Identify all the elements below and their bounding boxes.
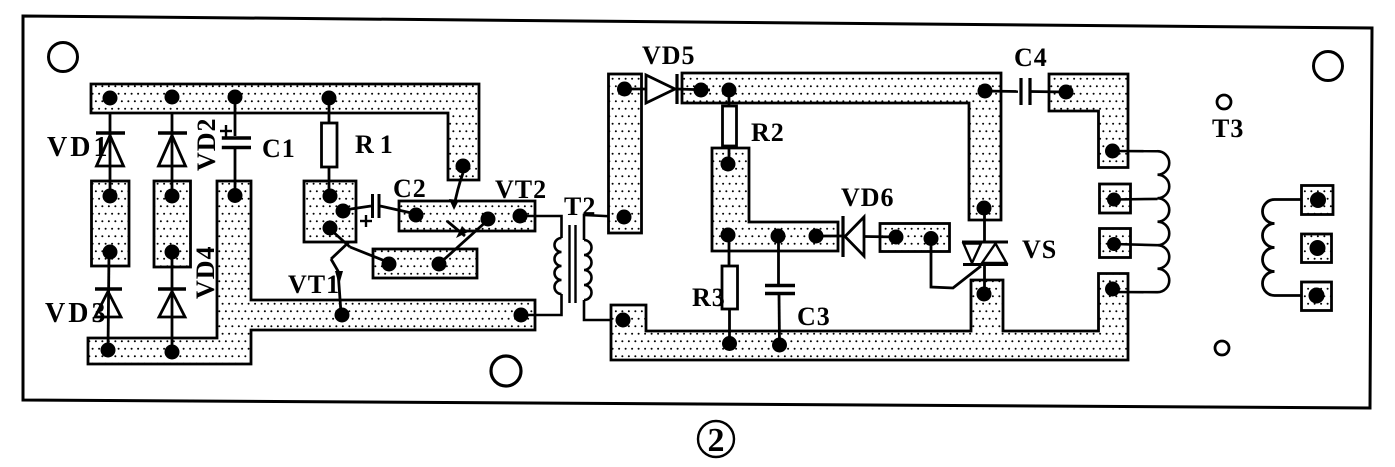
node pad C1 top xyxy=(228,90,243,105)
wire T3 pad 1 xyxy=(1302,186,1334,215)
wire T2 primary bottom lead xyxy=(521,294,562,315)
T2 secondary winding xyxy=(584,240,592,300)
node pad xyxy=(165,189,180,204)
wire C1 negative trace + bottom-left ground bus + middle bus xyxy=(88,181,535,364)
diode VD4 xyxy=(158,253,186,352)
resistor R2 xyxy=(723,90,737,164)
diode VD1 xyxy=(96,113,125,196)
pulse transformer output winding xyxy=(1113,151,1170,292)
node pad T2 primary top xyxy=(513,209,528,224)
node pad R2 top xyxy=(722,83,737,98)
transistor VT1 xyxy=(331,230,390,313)
wire T3 pad 2 xyxy=(1302,234,1332,263)
node pad xyxy=(1310,240,1326,256)
wire tap 2 lead xyxy=(1114,244,1158,245)
capacitor C3 xyxy=(765,236,795,345)
node pad T-out winding bottom xyxy=(1105,282,1120,297)
svg-text:VD2: VD2 xyxy=(192,117,221,171)
node pad T2 primary bottom xyxy=(514,308,529,323)
node pad VS cathode xyxy=(977,287,992,302)
node pad VD6 cathode xyxy=(889,230,904,245)
transformer T2 xyxy=(520,215,624,320)
transformer T3 winding xyxy=(1263,200,1302,296)
node pad xyxy=(103,189,118,204)
node pad VT2 emitter xyxy=(481,212,496,227)
transistor VT2 xyxy=(439,173,489,264)
thyristor VS xyxy=(931,208,1008,294)
node pad tap 2 xyxy=(1107,237,1121,251)
small hole near T3 top xyxy=(1217,95,1231,109)
svg-text:C1: C1 xyxy=(262,134,296,163)
node pad C3 bottom xyxy=(772,338,787,353)
svg-text:VD4: VD4 xyxy=(191,245,220,299)
wire T2 primary top lead xyxy=(520,216,562,238)
node pad C1 bottom xyxy=(228,188,243,203)
diode VD2 xyxy=(158,113,187,196)
wire T3 pad 3 xyxy=(1302,282,1332,311)
wire winding top lead xyxy=(1113,150,1158,153)
mounting hole top-right xyxy=(1314,52,1343,81)
node pad R2 bottom xyxy=(721,157,736,172)
node pad R1 bottom xyxy=(323,189,338,204)
wire winding tap pad lower xyxy=(1100,229,1131,258)
node pad R1 top xyxy=(322,91,337,106)
svg-text:C4: C4 xyxy=(1014,43,1048,72)
capacitor C4 xyxy=(985,78,1066,105)
wire T2 secondary top lead xyxy=(584,215,624,240)
node pad C2 left xyxy=(336,204,351,219)
T2 core xyxy=(568,225,570,303)
node pad VD2 top xyxy=(165,90,180,105)
svg-text:VD6: VD6 xyxy=(841,183,895,212)
node pad xyxy=(382,257,397,272)
node pad T2 sec top xyxy=(617,210,632,225)
diode VD6 xyxy=(816,216,896,257)
wire VT1 collector island xyxy=(373,249,477,278)
node pad xyxy=(1309,288,1325,304)
svg-text:VS: VS xyxy=(1022,235,1057,264)
small hole near T3 bottom xyxy=(1215,341,1229,355)
svg-text:VT2: VT2 xyxy=(495,175,547,204)
node pad C4 left xyxy=(978,84,993,99)
svg-text:R3: R3 xyxy=(692,283,726,312)
node pad VT1 base xyxy=(323,221,338,236)
node pad winding top xyxy=(1105,144,1120,159)
svg-text:C3: C3 xyxy=(797,302,831,331)
svg-text:VD5: VD5 xyxy=(642,41,696,70)
figure number 2 xyxy=(698,421,734,459)
node pad VD5 cathode xyxy=(694,83,709,98)
wire bottom bus of section 2 with VS leg and right leg xyxy=(611,274,1128,361)
wire tap 1 lead xyxy=(1114,198,1158,201)
svg-text:R2: R2 xyxy=(751,118,785,147)
node pad VD3 bottom xyxy=(101,343,116,358)
node pad xyxy=(1310,192,1326,208)
wire T2 secondary bottom lead xyxy=(584,300,623,320)
node pad xyxy=(165,245,180,260)
svg-text:VT1: VT1 xyxy=(288,270,340,299)
wire VT1 base/collector island xyxy=(304,181,356,242)
node pad T2 sec bottom xyxy=(616,313,631,328)
wire top copper bus with right leg down xyxy=(91,84,479,180)
diode VD3 xyxy=(95,253,122,350)
svg-text:VD1: VD1 xyxy=(47,132,110,163)
T2 primary winding xyxy=(555,238,562,294)
node pad VS gate xyxy=(924,231,939,246)
node pad xyxy=(432,257,447,272)
wire left vertical trace (T2 sec / VD5 anode) xyxy=(609,74,642,233)
node pad VT2 collector xyxy=(456,159,471,174)
capacitor C2 xyxy=(344,194,416,227)
wire winding tap pad upper xyxy=(1100,184,1131,213)
svg-text:T3: T3 xyxy=(1212,114,1244,143)
node pad C3 top xyxy=(771,229,786,244)
svg-text:2: 2 xyxy=(708,422,725,459)
node pad VD5 anode xyxy=(617,82,632,97)
winding coil xyxy=(1158,151,1170,292)
svg-text:C2: C2 xyxy=(393,174,427,203)
node pad tap 1 xyxy=(1107,193,1121,207)
node pad VD4 bottom xyxy=(165,345,180,360)
wire winding bottom lead xyxy=(1113,291,1158,294)
wire C4 right island with leg down xyxy=(1049,74,1128,168)
wire VS gate lead xyxy=(931,240,981,288)
node pad C2 right xyxy=(409,208,424,223)
diode VD5 xyxy=(625,74,711,104)
node pad VT1 emitter xyxy=(335,308,350,323)
node pad R3 top xyxy=(721,228,736,243)
svg-text:T2: T2 xyxy=(564,192,596,221)
svg-text:VD3: VD3 xyxy=(45,298,108,329)
node pad VD1 top xyxy=(103,91,118,106)
wire VD6 cathode island xyxy=(880,224,950,252)
capacitor C1 xyxy=(220,97,251,195)
wire R2 bottom L-trace xyxy=(712,148,838,251)
resistor R3 xyxy=(722,235,738,344)
wire top bus of section 2 with right leg xyxy=(682,73,1001,220)
mounting hole center-bottom xyxy=(491,356,521,386)
node pad VS anode xyxy=(977,201,992,216)
mounting hole top-left xyxy=(49,43,78,72)
wire C2/VT2 long island xyxy=(399,201,535,231)
svg-text:R1: R1 xyxy=(355,130,399,159)
wire copper pad strip under VD2 xyxy=(154,181,191,267)
node pad VD6 anode xyxy=(809,229,824,244)
node pad C4 right xyxy=(1059,85,1074,100)
resistor R1 xyxy=(322,98,338,196)
node pad xyxy=(103,245,118,260)
node pad R3 bottom xyxy=(722,336,737,351)
wire copper pad strip under VD1 xyxy=(92,181,130,266)
